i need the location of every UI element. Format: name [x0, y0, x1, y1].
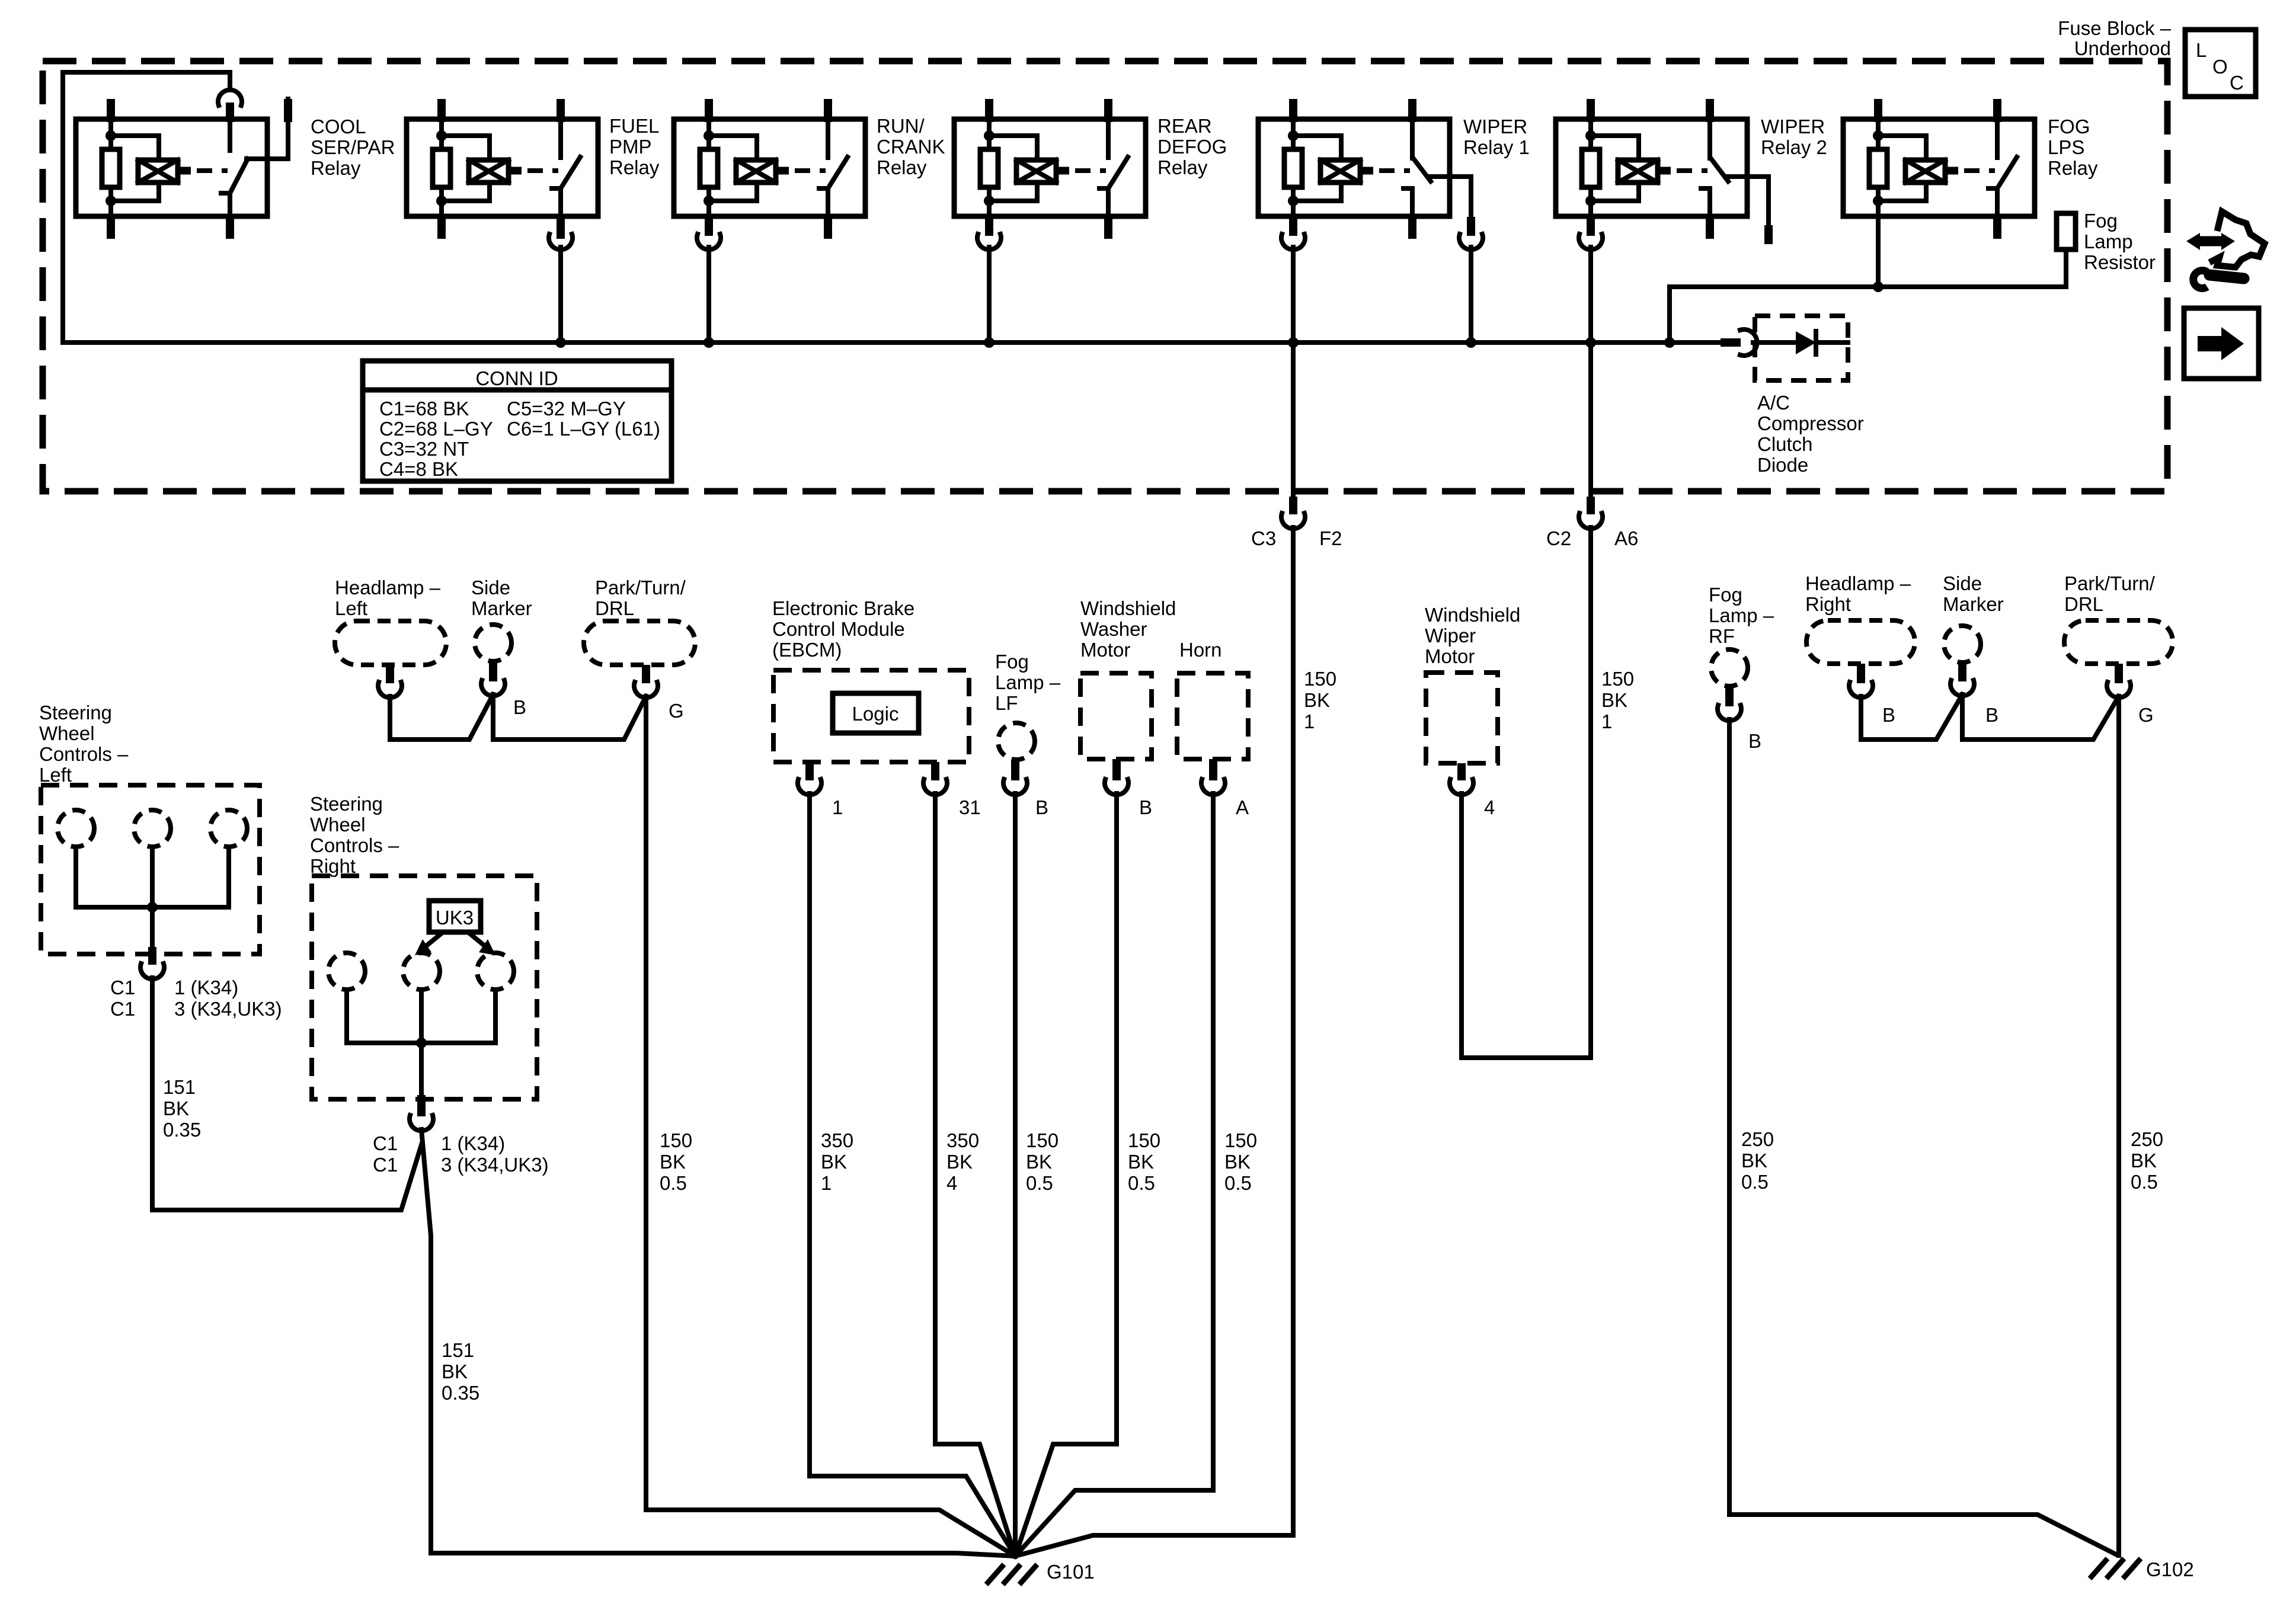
svg-text:C1: C1 [110, 998, 135, 1020]
wire WIPER Relay 1 coil down across bus [1291, 247, 1296, 497]
svg-text:COOL: COOL [311, 116, 366, 137]
svg-text:BK: BK [442, 1361, 468, 1382]
steering left output pin [148, 947, 156, 965]
wire circle1 to common [76, 847, 152, 907]
svg-text:0.35: 0.35 [163, 1119, 201, 1141]
EBCM dashed box [773, 670, 969, 762]
svg-text:L: L [2196, 39, 2207, 61]
junction steering right common [416, 1038, 427, 1048]
CONN ID table [363, 361, 671, 481]
wire side marker right to park/turn splice [1962, 694, 2119, 740]
svg-text:Fog: Fog [2084, 210, 2118, 232]
svg-text:C3=32 NT: C3=32 NT [379, 438, 469, 460]
headlamp left pin [386, 665, 394, 683]
svg-text:350: 350 [946, 1129, 979, 1151]
svg-text:C1: C1 [373, 1132, 398, 1154]
svg-text:1: 1 [1304, 710, 1315, 732]
junction FUEL PMP/bus [555, 337, 566, 348]
svg-text:C: C [2230, 72, 2244, 94]
switch contact circle 3 (right) [477, 953, 514, 990]
svg-text:151: 151 [163, 1076, 196, 1098]
svg-text:250: 250 [1741, 1128, 1774, 1150]
svg-text:BK: BK [946, 1151, 973, 1173]
svg-text:Motor: Motor [1080, 639, 1130, 661]
svg-text:F2: F2 [1319, 527, 1342, 549]
wire wiper motor to C2/A6 [1462, 793, 1591, 1058]
junction WIPER Relay 1 coil/bus [1288, 337, 1299, 348]
park/turn/DRL left pin [642, 665, 650, 683]
fog lamp RF connector circle [1711, 649, 1748, 686]
svg-text:DEFOG: DEFOG [1157, 136, 1227, 158]
riser wire from bus to fog lamp resistor line [1667, 287, 1672, 343]
wire EBCM pin31 to G101 [935, 793, 1015, 1556]
svg-text:Park/Turn/: Park/Turn/ [2064, 572, 2156, 594]
svg-text:Park/Turn/: Park/Turn/ [595, 577, 686, 598]
UK3 arrow to circle 3 [469, 933, 486, 947]
svg-text:3 (K34,UK3): 3 (K34,UK3) [174, 998, 282, 1020]
svg-text:Relay: Relay [877, 156, 927, 178]
connector cup below WIPER Relay 1 coil pin [1281, 234, 1305, 249]
svg-text:350: 350 [821, 1129, 853, 1151]
svg-text:Headlamp –: Headlamp – [335, 577, 441, 598]
svg-text:A/C: A/C [1757, 392, 1790, 414]
wire FUEL PMP to bus [558, 247, 563, 343]
horn dashed box [1177, 673, 1248, 759]
wire right circle3 to common [421, 990, 495, 1043]
svg-text:0.5: 0.5 [2131, 1171, 2158, 1193]
park/turn/DRL right pin [2115, 664, 2123, 683]
svg-text:Lamp: Lamp [2084, 231, 2133, 252]
svg-text:4: 4 [1484, 796, 1495, 818]
svg-text:Wiper: Wiper [1425, 625, 1476, 646]
junction REAR DEFOG/bus [984, 337, 994, 348]
service manual icon (double arrow, wrench, contour) [2186, 212, 2265, 289]
svg-text:Underhood: Underhood [2074, 37, 2171, 59]
svg-text:WIPER: WIPER [1761, 116, 1825, 137]
connector C2/A6 pin at fuse block boundary [1587, 497, 1595, 514]
UK3 arrow to circle 2 [425, 933, 442, 947]
svg-text:RUN/: RUN/ [877, 115, 925, 137]
wire REAR DEFOG to bus [987, 247, 992, 343]
svg-text:1: 1 [832, 796, 843, 818]
diode D1 [1796, 331, 1816, 354]
wire EBCM pin1 to G101 [810, 793, 1015, 1556]
Logic box [833, 693, 919, 733]
svg-text:C2: C2 [1546, 527, 1571, 549]
horn pin [1209, 759, 1217, 780]
svg-text:0.5: 0.5 [1741, 1171, 1769, 1193]
svg-text:Control Module: Control Module [772, 618, 905, 640]
steering right output pin [417, 1095, 426, 1116]
svg-text:Headlamp –: Headlamp – [1805, 572, 1911, 594]
svg-text:CONN ID: CONN ID [475, 367, 558, 389]
relay FOG LPS [1843, 99, 2035, 239]
svg-text:1 (K34): 1 (K34) [441, 1132, 505, 1154]
wire fog RF to G102 [1729, 719, 2116, 1554]
svg-text:Wheel: Wheel [39, 722, 95, 744]
svg-text:WIPER: WIPER [1463, 116, 1527, 137]
svg-text:4: 4 [946, 1172, 957, 1194]
svg-text:150: 150 [1304, 668, 1336, 690]
headlamp right connector oval [1806, 620, 1915, 664]
wiper motor pin 4 [1457, 763, 1466, 780]
switch contact circle 2 (right) [403, 953, 440, 990]
svg-text:Logic: Logic [852, 703, 899, 725]
svg-text:RF: RF [1709, 625, 1735, 647]
wire circle3 to common [152, 847, 229, 907]
wire C2/A6 down [1588, 527, 1593, 1058]
svg-text:C1=68 BK: C1=68 BK [379, 398, 469, 420]
svg-text:(EBCM): (EBCM) [772, 639, 842, 661]
ground bus wire inside fuse block [63, 340, 1723, 345]
svg-text:Windshield: Windshield [1080, 597, 1176, 619]
fog lamp feed line [1670, 284, 2066, 289]
connector cup below FUEL PMP relay switch pin [549, 234, 573, 249]
svg-text:Motor: Motor [1425, 645, 1475, 667]
svg-text:CRANK: CRANK [877, 136, 945, 158]
side marker right connector circle [1944, 626, 1981, 662]
wire park/turn left to G101 [646, 696, 1015, 1556]
park/turn/DRL left connector oval [584, 621, 695, 665]
wire steering left to steering right splice [152, 978, 421, 1210]
relay COOL SER/PAR [76, 90, 288, 239]
svg-text:Electronic Brake: Electronic Brake [772, 597, 914, 619]
svg-text:FUEL: FUEL [609, 115, 659, 137]
wire fog LF to G101 [1013, 793, 1018, 1556]
A/C compressor clutch diode pin on bus [1721, 338, 1741, 347]
svg-text:Horn: Horn [1179, 639, 1222, 661]
svg-text:G101: G101 [1047, 1561, 1095, 1583]
svg-text:G102: G102 [2146, 1558, 2194, 1580]
svg-text:150: 150 [1026, 1129, 1059, 1151]
svg-text:Controls –: Controls – [310, 834, 399, 856]
svg-text:BK: BK [1026, 1151, 1052, 1173]
svg-text:FOG: FOG [2048, 116, 2090, 137]
svg-text:0.5: 0.5 [1026, 1172, 1053, 1194]
svg-text:DRL: DRL [2064, 593, 2103, 615]
wiper motor dashed box [1426, 673, 1498, 763]
svg-text:Side: Side [1943, 572, 1982, 594]
svg-text:Relay 2: Relay 2 [1761, 136, 1827, 158]
switch contact circle 1 (right) [328, 953, 365, 990]
svg-text:Windshield: Windshield [1425, 604, 1520, 626]
svg-text:1: 1 [1601, 710, 1612, 732]
wire from bus up and over to COOL SER/PAR relay switch feed [63, 72, 230, 343]
relay FUEL PMP [407, 99, 598, 239]
switch contact circle 3 [210, 810, 247, 847]
side marker left pin [489, 661, 497, 681]
svg-text:Washer: Washer [1080, 618, 1147, 640]
headlamp right pin [1857, 664, 1865, 683]
svg-text:PMP: PMP [609, 136, 652, 158]
wire WIPER Relay 2 coil down across bus [1588, 247, 1593, 497]
svg-text:BK: BK [2131, 1150, 2157, 1172]
svg-text:0.5: 0.5 [1128, 1172, 1155, 1194]
junction RUN/CRANK/bus [703, 337, 714, 348]
switch with top feed and output to top-right pin [218, 90, 242, 105]
connector C3/F2 pin at fuse block boundary [1289, 497, 1297, 514]
svg-text:BK: BK [821, 1151, 847, 1173]
wire FOG LPS relay coil to feed line [1876, 216, 1881, 287]
svg-text:Wheel: Wheel [310, 814, 366, 836]
EBCM pin 31 [931, 762, 939, 780]
junction bus to fog lamp feed riser [1664, 337, 1675, 348]
svg-text:Relay: Relay [1157, 156, 1208, 178]
steering wheel controls right dashed box [312, 876, 537, 1099]
svg-text:Marker: Marker [1943, 593, 2004, 615]
connector cup below RUN/CRANK relay coil pin [697, 234, 721, 249]
svg-text:Lamp –: Lamp – [1709, 604, 1774, 626]
junction steering left common [147, 902, 158, 913]
connector cup below WIPER Relay 2 coil pin [1579, 234, 1603, 249]
UK3 option box [429, 901, 481, 932]
svg-text:Relay: Relay [311, 157, 361, 179]
EBCM pin 1 [805, 762, 814, 780]
svg-text:250: 250 [2131, 1128, 2163, 1150]
wire C3/F2 to G101 [1015, 527, 1293, 1556]
svg-text:Controls –: Controls – [39, 743, 129, 765]
svg-text:SER/PAR: SER/PAR [311, 136, 395, 158]
wire RUN/CRANK to bus [706, 247, 711, 343]
svg-text:150: 150 [1128, 1129, 1160, 1151]
svg-text:C2=68 L–GY: C2=68 L–GY [379, 418, 493, 440]
A/C diode dashed box [1755, 316, 1848, 380]
connector cup below REAR DEFOG relay coil pin [977, 234, 1001, 249]
washer motor dashed box [1080, 673, 1152, 759]
svg-text:Left: Left [335, 597, 367, 619]
wire fog lamp resistor to feed line [2064, 249, 2068, 287]
washer motor pin [1112, 759, 1121, 780]
wire washer motor to G101 [1015, 793, 1117, 1556]
svg-text:C1: C1 [373, 1154, 398, 1176]
connector cup below WIPER Relay 1 switch output [1459, 234, 1483, 249]
wire right circle1 to common [347, 990, 421, 1043]
svg-text:1: 1 [821, 1172, 832, 1194]
relay WIPER Relay 2 [1556, 99, 1769, 244]
fog lamp LF pin [1011, 760, 1019, 780]
svg-text:BK: BK [1304, 689, 1330, 711]
wire horn to G101 [1015, 793, 1213, 1556]
svg-text:Right: Right [1805, 593, 1851, 615]
svg-text:A6: A6 [1614, 527, 1638, 549]
steering wheel controls left dashed box [41, 785, 260, 954]
svg-text:B: B [513, 696, 526, 718]
svg-text:O: O [2212, 56, 2228, 78]
svg-text:150: 150 [660, 1129, 692, 1151]
svg-text:G: G [2138, 704, 2154, 726]
wire side marker left to park/turn splice [493, 694, 646, 740]
svg-text:UK3: UK3 [436, 907, 474, 929]
switch contact circle 1 [57, 810, 94, 847]
svg-text:Fuse Block –: Fuse Block – [2058, 17, 2171, 39]
svg-text:Steering: Steering [39, 702, 112, 724]
svg-text:C6=1 L–GY (L61): C6=1 L–GY (L61) [507, 418, 660, 440]
svg-text:B: B [1139, 796, 1152, 818]
relay REAR DEFOG [954, 99, 1146, 239]
svg-text:DRL: DRL [595, 597, 634, 619]
svg-text:Fog: Fog [995, 651, 1029, 673]
svg-text:LPS: LPS [2048, 136, 2084, 158]
svg-text:BK: BK [1224, 1151, 1251, 1173]
fog lamp resistor R [2057, 213, 2076, 249]
svg-text:0.5: 0.5 [1224, 1172, 1252, 1194]
svg-text:A: A [1236, 796, 1249, 818]
svg-text:BK: BK [1741, 1150, 1767, 1172]
svg-text:Lamp –: Lamp – [995, 671, 1061, 693]
svg-text:Fog: Fog [1709, 584, 1742, 606]
svg-text:31: 31 [959, 796, 981, 818]
svg-text:Diode: Diode [1757, 454, 1808, 476]
svg-text:1 (K34): 1 (K34) [174, 977, 238, 998]
svg-text:B: B [1035, 796, 1048, 818]
relay RUN/CRANK [674, 99, 865, 239]
svg-text:B: B [1985, 704, 1998, 726]
svg-text:C1: C1 [110, 977, 135, 998]
switch contact circle 2 [134, 810, 171, 847]
side marker right pin [1958, 662, 1966, 681]
svg-text:0.5: 0.5 [660, 1172, 687, 1194]
svg-text:BK: BK [1601, 689, 1627, 711]
svg-text:BK: BK [1128, 1151, 1154, 1173]
fuse block underhood dashed boundary [43, 61, 2167, 491]
headlamp left connector oval [335, 621, 446, 665]
svg-text:REAR: REAR [1157, 115, 1212, 137]
svg-text:Side: Side [471, 577, 510, 598]
svg-text:Compressor: Compressor [1757, 412, 1864, 434]
fog lamp LF connector circle [998, 723, 1035, 760]
svg-text:Marker: Marker [471, 597, 532, 619]
svg-text:Resistor: Resistor [2084, 251, 2156, 273]
relay WIPER Relay 1 [1258, 99, 1471, 239]
wire WIPER Relay 1 switch output to bus [1469, 247, 1473, 343]
svg-text:151: 151 [442, 1339, 474, 1361]
svg-text:Relay: Relay [609, 156, 660, 178]
wire headlamp right to side marker splice [1861, 694, 1962, 740]
junction FOG LPS coil/feed line [1873, 281, 1884, 292]
wire park/turn right to G102 [2116, 696, 2121, 1555]
junction WIPER Relay 2 coil/bus [1585, 337, 1596, 348]
side marker left connector circle [475, 625, 511, 661]
wire diode to box edge [1816, 340, 1848, 345]
wire circle2 down [150, 847, 155, 947]
junction WIPER Relay 1 output/bus [1466, 337, 1476, 348]
fog lamp RF pin [1725, 686, 1734, 706]
svg-text:B: B [1748, 730, 1761, 752]
wire to diode [1753, 340, 1796, 345]
wire steering right to G101 [421, 1129, 1015, 1556]
svg-text:BK: BK [660, 1151, 686, 1173]
svg-text:Clutch: Clutch [1757, 433, 1813, 455]
svg-text:Relay 1: Relay 1 [1463, 136, 1530, 158]
svg-text:BK: BK [163, 1097, 189, 1119]
svg-text:150: 150 [1224, 1129, 1257, 1151]
park/turn/DRL right connector oval [2064, 620, 2173, 664]
forward arrow icon box [2184, 308, 2259, 379]
svg-text:150: 150 [1601, 668, 1634, 690]
svg-text:LF: LF [995, 692, 1018, 714]
svg-text:Steering: Steering [310, 793, 383, 815]
wire right circle2 down [419, 990, 424, 1095]
svg-text:B: B [1882, 704, 1895, 726]
svg-text:Relay: Relay [2048, 157, 2098, 179]
A/C diode connector cup [1740, 329, 1757, 356]
svg-text:C5=32 M–GY: C5=32 M–GY [507, 398, 626, 420]
svg-text:G: G [669, 700, 684, 722]
svg-text:C3: C3 [1251, 527, 1276, 549]
LOC legend box [2185, 30, 2256, 97]
svg-text:C4=8 BK: C4=8 BK [379, 458, 458, 480]
svg-text:3 (K34,UK3): 3 (K34,UK3) [441, 1154, 549, 1176]
svg-text:Left: Left [39, 764, 72, 786]
wire headlamp left to side marker splice [390, 694, 493, 740]
svg-text:0.35: 0.35 [442, 1382, 479, 1404]
